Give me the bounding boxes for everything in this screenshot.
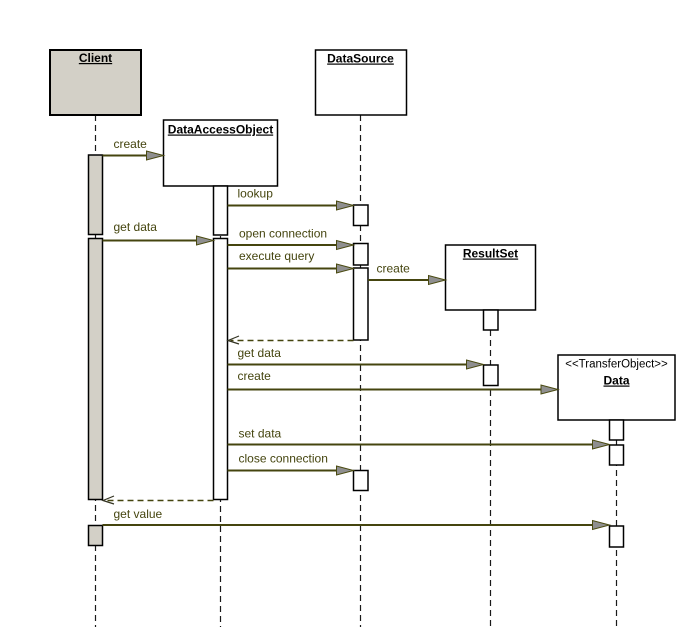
object box DataSource bbox=[316, 50, 407, 115]
svg-text:create: create bbox=[377, 262, 411, 276]
svg-text:open connection: open connection bbox=[239, 227, 327, 241]
svg-text:execute query: execute query bbox=[239, 249, 314, 263]
svg-text:create: create bbox=[238, 369, 272, 383]
message open connection (DAO -> DataSource) bbox=[228, 227, 354, 250]
activation bar DAO 1 (create) bbox=[214, 186, 228, 235]
lifeline Client (dashed) bbox=[95, 115, 97, 627]
message create (DataSource -> ResultSet) bbox=[368, 262, 446, 285]
svg-text:<<TransferObject>>: <<TransferObject>> bbox=[565, 359, 668, 371]
object box ResultSet bbox=[446, 245, 536, 310]
lifeline ResultSet (dashed) bbox=[490, 310, 492, 627]
activation bar Client 2 bbox=[89, 239, 103, 500]
activation bar Client 3 (get value) bbox=[89, 526, 103, 546]
svg-text:Client: Client bbox=[79, 51, 112, 65]
activation bar DataSource close connection bbox=[354, 471, 369, 491]
lifeline DataAccessObject (dashed) bbox=[220, 186, 222, 627]
svg-text:create: create bbox=[114, 137, 148, 151]
lifeline Data (dashed) bbox=[616, 420, 618, 627]
message set data (DAO -> Data) bbox=[228, 427, 610, 450]
activation bar Data head bbox=[610, 420, 624, 440]
message close connection (DAO -> DataSource) bbox=[228, 452, 354, 476]
activation bar Data set data bbox=[610, 445, 624, 465]
message get value (Client -> Data) bbox=[103, 507, 610, 530]
svg-text:lookup: lookup bbox=[238, 187, 274, 201]
message get data (Client -> DAO) bbox=[103, 220, 214, 245]
svg-text:DataAccessObject: DataAccessObject bbox=[168, 123, 273, 137]
svg-text:get data: get data bbox=[114, 220, 158, 234]
object box Data (TransferObject) bbox=[558, 355, 675, 420]
object box DataAccessObject bbox=[164, 120, 278, 186]
return message (DataSource -> DAO, dashed) bbox=[228, 336, 354, 344]
message get data (DAO -> ResultSet) bbox=[228, 346, 484, 369]
svg-text:get data: get data bbox=[238, 346, 282, 360]
activation bar DAO 2 (get data) bbox=[214, 239, 228, 500]
svg-text:close connection: close connection bbox=[239, 452, 328, 466]
message execute query (DAO -> DataSource) bbox=[228, 249, 354, 273]
message create (DAO -> Data) bbox=[228, 369, 559, 394]
activation bar DataSource open connection bbox=[354, 244, 369, 266]
activation bar DataSource lookup bbox=[354, 205, 369, 226]
return message (DAO -> Client, dashed) bbox=[103, 496, 214, 504]
activation bar ResultSet head bbox=[484, 310, 499, 330]
svg-text:get value: get value bbox=[114, 507, 163, 521]
svg-text:Data: Data bbox=[603, 374, 629, 388]
svg-text:ResultSet: ResultSet bbox=[463, 247, 518, 261]
activation bar Client 1 bbox=[89, 155, 103, 235]
activation bar Data get value bbox=[610, 526, 624, 547]
message lookup (DAO -> DataSource) bbox=[228, 187, 354, 211]
activation bar DataSource execute query bbox=[354, 268, 369, 340]
object box Client bbox=[50, 50, 141, 115]
activation bar ResultSet get data bbox=[484, 365, 499, 386]
lifeline DataSource (dashed) bbox=[360, 115, 362, 627]
svg-text:set data: set data bbox=[239, 427, 282, 441]
svg-text:DataSource: DataSource bbox=[327, 52, 394, 66]
message create (Client -> DAO) bbox=[103, 137, 164, 160]
